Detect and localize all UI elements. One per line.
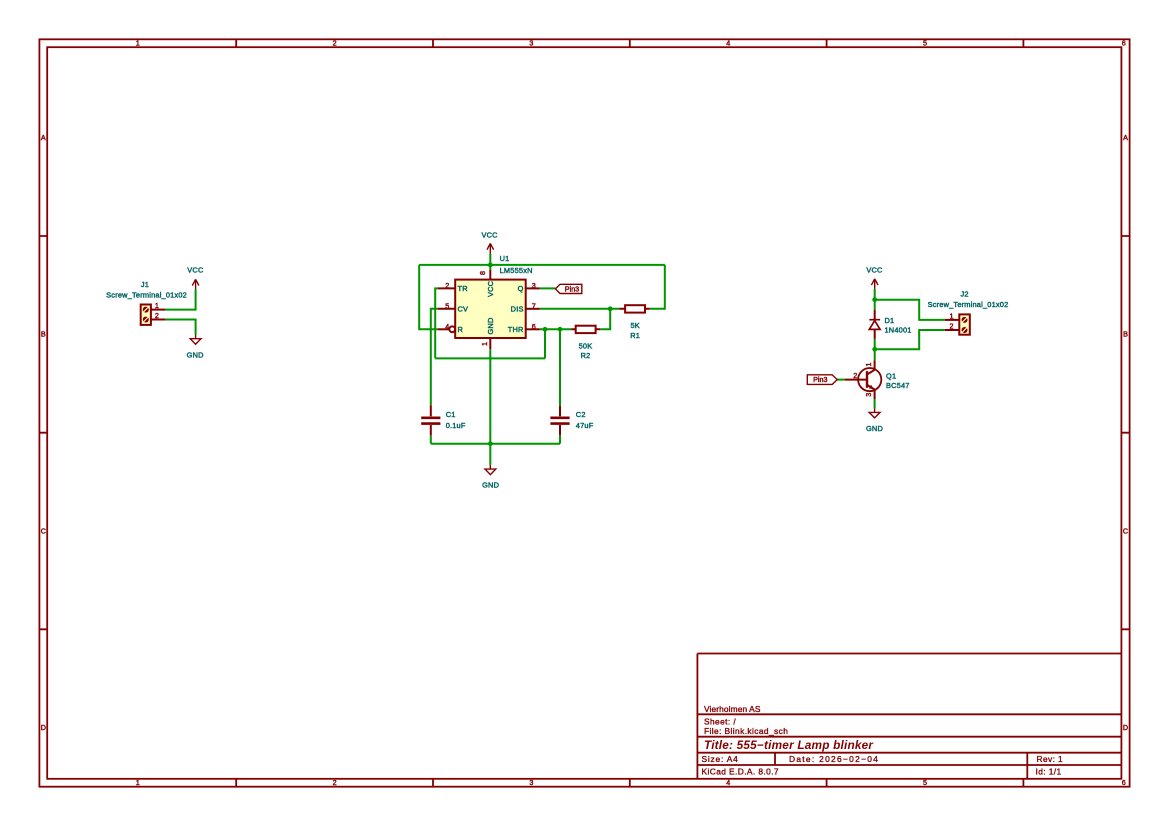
svg-text:BC547: BC547 [886,381,910,390]
sheet row labels left [41,133,46,732]
svg-text:2: 2 [155,311,159,320]
junction THR C2 [558,327,563,332]
wire chip gnd vertical [489,349,491,444]
wire loop bottom [435,357,545,359]
svg-text:D: D [41,723,46,732]
svg-text:1: 1 [950,312,954,321]
wire Pin3 label to Q1 base [837,379,845,381]
wire loop right vertical [544,329,546,358]
wire junction to J2 pin1 [875,300,945,320]
power symbol GND center [485,465,496,475]
svg-text:Pin3: Pin3 [813,375,827,384]
wire C1 bottom [430,435,432,444]
wire gnd bottom horizontal [431,443,560,445]
svg-text:DIS: DIS [511,304,524,313]
U1 pin 4 bubble [449,326,455,332]
svg-text:50K: 50K [579,342,593,351]
wire R2 right [600,309,610,330]
svg-text:VCC: VCC [187,265,204,274]
wire C2 bottom [559,435,561,444]
svg-text:KiCad E.D.A. 8.0.7: KiCad E.D.A. 8.0.7 [702,767,780,777]
power symbol GND J1 [190,335,201,345]
U1 pin 8 [489,270,491,280]
U1 pin 3 [526,287,540,289]
resistor R2 [571,326,600,333]
svg-text:2: 2 [445,281,449,290]
J1 pin 2 [151,319,166,321]
svg-text:VCC: VCC [866,265,883,274]
svg-text:47uF: 47uF [576,421,594,430]
wire Q1 emitter to GND [874,399,876,408]
svg-text:8: 8 [478,271,487,275]
svg-text:C: C [1123,526,1128,535]
svg-text:4: 4 [726,778,730,787]
U1 pin 4 [438,328,450,330]
J1 screw 2 [143,317,149,323]
sheet column labels bottom [136,778,1126,787]
U1 pin 5 [438,308,456,310]
svg-text:1: 1 [136,39,140,48]
wire gnd symbol lead [489,444,491,465]
junction D1 Q1 [872,347,877,352]
svg-text:Vierholmen AS: Vierholmen AS [704,704,761,714]
svg-text:J2: J2 [960,290,968,299]
title block frame [697,654,1121,779]
power symbol VCC right [871,279,878,289]
sheet row ticks right [1121,236,1129,629]
junction gnd bottom [488,441,493,446]
connector J2 body [959,314,970,334]
junction VCC pin8 [488,263,493,268]
svg-text:5: 5 [445,302,449,311]
svg-text:6: 6 [532,322,536,331]
svg-text:0.1uF: 0.1uF [446,421,466,430]
svg-text:Pin3: Pin3 [565,284,579,293]
svg-text:Sheet: /: Sheet: / [704,716,736,726]
svg-text:1: 1 [480,342,489,346]
svg-text:Screw_Terminal_01x02: Screw_Terminal_01x02 [106,291,187,300]
svg-text:Q: Q [518,284,524,293]
svg-text:A: A [1123,133,1128,142]
J1 pin 1 [151,309,166,311]
svg-text:5K: 5K [630,321,639,330]
sheet column labels top [136,39,1126,48]
wire THR to R2 [540,328,571,330]
svg-text:4: 4 [445,322,449,331]
svg-text:Size: A4: Size: A4 [702,754,739,764]
wire VCC to D1 [874,289,876,310]
svg-text:6: 6 [1122,39,1126,48]
svg-text:TR: TR [458,284,468,293]
sheet column ticks top [236,39,1023,47]
svg-text:5: 5 [923,778,927,787]
J2 pin 2 [945,329,959,331]
diode D1 [869,310,880,339]
sheet column ticks bottom [236,779,1023,787]
wire Q to Pin3 label [540,287,556,289]
svg-text:Q1: Q1 [886,371,896,380]
svg-text:3: 3 [529,778,533,787]
capacitor C1 [421,405,440,435]
J2 screw 1 [962,317,968,323]
svg-text:VCC: VCC [486,280,495,297]
svg-text:D1: D1 [885,316,895,325]
wire J1 pin2 to GND [165,320,195,335]
svg-text:J1: J1 [141,280,149,289]
svg-text:VCC: VCC [481,230,498,239]
J1 screw 1 [143,307,149,313]
wire C2 vertical [559,329,561,406]
svg-text:2: 2 [333,778,337,787]
svg-text:GND: GND [482,481,499,490]
U1 pin 2 [438,287,456,289]
svg-text:THR: THR [508,325,524,334]
op-amp U1 body [455,280,526,338]
power symbol GND right [869,408,880,418]
svg-text:4: 4 [726,39,730,48]
transistor Q1 [845,360,882,399]
resistor R1 [619,305,649,312]
wire vcc lead [489,254,491,270]
svg-text:1: 1 [864,363,873,367]
svg-text:File: Blink.kicad_sch: File: Blink.kicad_sch [704,726,788,736]
svg-text:Title: 555−timer Lamp blinker: Title: 555−timer Lamp blinker [704,738,874,752]
svg-text:D: D [1123,723,1128,732]
svg-text:1N4001: 1N4001 [885,325,912,334]
svg-text:7: 7 [532,302,536,311]
sheet row labels right [1123,133,1128,732]
svg-text:3: 3 [529,39,533,48]
svg-text:1: 1 [136,778,140,787]
svg-text:C: C [41,526,46,535]
svg-text:GND: GND [866,424,883,433]
svg-text:B: B [1123,330,1128,339]
U1 pin 6 [526,328,540,330]
wire J1 pin1 to VCC [165,289,195,309]
capacitor C2 [550,406,569,435]
wire DIS to R1 [540,308,620,310]
svg-text:R2: R2 [581,351,591,360]
wire R1 right [650,265,665,309]
svg-text:Id: 1/1: Id: 1/1 [1036,767,1062,777]
svg-text:6: 6 [1122,778,1126,787]
svg-text:1: 1 [155,301,159,310]
svg-text:A: A [41,133,46,142]
svg-text:B: B [41,330,46,339]
connector J1 body [141,305,151,325]
wire TR vertical [435,288,438,358]
svg-text:3: 3 [532,281,536,290]
svg-text:3: 3 [864,393,873,397]
svg-text:2: 2 [853,371,857,380]
wire top loop horizontal [419,264,665,266]
svg-text:5: 5 [923,39,927,48]
svg-text:2: 2 [333,39,337,48]
svg-text:Date: 2026−02−04: Date: 2026−02−04 [789,754,879,764]
wire D1 to Q1 [874,339,876,361]
svg-text:R1: R1 [630,331,640,340]
svg-text:2: 2 [950,322,954,331]
svg-text:C2: C2 [576,410,586,419]
svg-text:U1: U1 [500,254,510,263]
svg-text:CV: CV [458,304,469,313]
wire left vertical to pin4 [419,265,438,329]
svg-text:GND: GND [486,317,495,334]
svg-text:R: R [458,325,464,334]
global label Pin3 center [555,284,581,293]
junction VCC D1 [872,297,877,302]
U1 pin 7 [526,308,540,310]
svg-text:Rev: 1: Rev: 1 [1037,754,1064,764]
junction DIS R2 [608,306,613,311]
svg-text:GND: GND [187,350,204,359]
power symbol VCC center [487,243,494,253]
svg-text:Screw_Terminal_01x02: Screw_Terminal_01x02 [928,300,1009,309]
U1 pin 1 [489,338,491,349]
junction THR loop [543,327,548,332]
J2 screw 2 [962,327,968,333]
global label Pin3 right [807,375,837,385]
power symbol VCC J1 [192,279,199,289]
svg-text:C1: C1 [446,410,456,419]
wire junction to J2 pin2 [875,330,945,349]
J2 pin 1 [945,319,959,321]
wire CV to C1 [431,309,438,405]
svg-text:LM555xN: LM555xN [500,266,533,275]
sheet row ticks left [39,236,47,629]
